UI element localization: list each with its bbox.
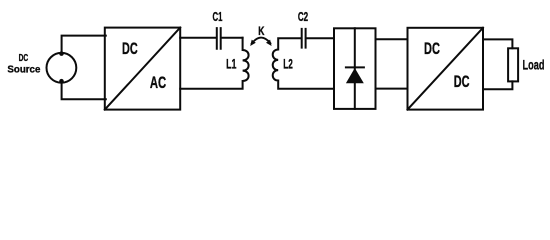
arrowhead K left xyxy=(250,40,256,46)
wire DC/AC to C1 xyxy=(180,37,216,39)
DC source V1 circle xyxy=(47,53,77,83)
wire rectifier to DC/DC bottom xyxy=(376,88,408,90)
svg-text:AC: AC xyxy=(150,74,166,92)
rectifier block xyxy=(334,28,376,109)
wire rectifier to DC/DC top xyxy=(376,38,408,40)
wire load bottom xyxy=(483,81,512,89)
svg-text:DC: DC xyxy=(19,53,29,64)
svg-text:DC: DC xyxy=(454,73,470,91)
svg-text:DC: DC xyxy=(424,40,440,58)
wire source bottom loop xyxy=(62,83,106,99)
diode D1 triangle xyxy=(346,68,364,83)
capacitor C1 plates xyxy=(217,28,221,49)
diagonal DC/AC xyxy=(105,28,180,110)
rectifier inner rail xyxy=(354,28,356,109)
wire source top loop xyxy=(62,36,106,53)
svg-text:L1: L1 xyxy=(226,56,237,71)
inductor L1 coil xyxy=(180,38,248,89)
wire C1 to L1 top xyxy=(222,37,243,39)
converter block DC/DC xyxy=(408,28,484,110)
svg-text:C1: C1 xyxy=(213,9,223,24)
converter block DC/AC xyxy=(105,28,180,110)
node dot source top xyxy=(59,51,64,56)
wire DC/DC to load top xyxy=(483,39,512,48)
wire C2 to rectifier xyxy=(307,37,335,39)
svg-text:DC: DC xyxy=(122,40,138,58)
node dot source bottom xyxy=(59,79,64,84)
diode D1 cathode bar xyxy=(346,66,364,68)
svg-text:C2: C2 xyxy=(298,9,308,24)
capacitor C2 plates xyxy=(302,29,306,48)
diagonal DC/DC xyxy=(408,28,484,110)
inductor L2 coil xyxy=(273,38,334,88)
load resistor box xyxy=(508,48,518,81)
coupling arrow arc K xyxy=(252,38,271,44)
svg-text:Load: Load xyxy=(523,57,545,72)
arrowhead K right xyxy=(266,40,272,46)
svg-text:Source: Source xyxy=(7,65,40,76)
svg-text:K: K xyxy=(258,25,265,38)
svg-text:L2: L2 xyxy=(283,57,293,72)
